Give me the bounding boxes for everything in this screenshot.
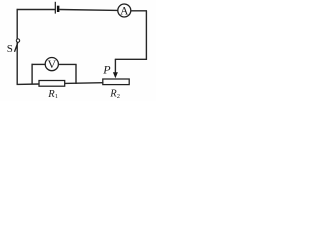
- slider arrow shaft: [114, 59, 116, 73]
- svg-text:P: P: [102, 63, 111, 77]
- wire bottom between R2 and R1: [64, 82, 103, 85]
- voltmeter loop left vertical: [31, 64, 33, 84]
- svg-text:R1: R1: [47, 89, 58, 100]
- voltmeter loop top-right horizontal: [58, 63, 76, 65]
- wire battery to ammeter: [59, 9, 117, 12]
- svg-text:V: V: [47, 57, 56, 71]
- wire slider horizontal: [115, 58, 147, 60]
- wire right vertical: [145, 11, 147, 60]
- battery short plate (negative): [57, 6, 60, 12]
- rheostat R2 body: [103, 79, 129, 85]
- battery long plate (positive): [54, 2, 56, 14]
- svg-text:R2: R2: [109, 89, 120, 100]
- resistor R1 body: [39, 81, 65, 87]
- svg-text:A: A: [120, 6, 129, 18]
- switch S pivot circle: [16, 39, 19, 42]
- ammeter A: [118, 4, 131, 18]
- wire left vertical: [16, 9, 18, 85]
- svg-text:S: S: [7, 43, 13, 55]
- switch S blade: [15, 42, 19, 52]
- voltmeter loop right vertical: [75, 64, 77, 84]
- wire top-left horizontal: [17, 9, 55, 11]
- voltmeter V: [45, 57, 58, 71]
- wire ammeter to top-right corner: [131, 10, 147, 12]
- slider arrowhead: [113, 72, 118, 78]
- voltmeter loop top-left horizontal: [32, 63, 46, 65]
- wire bottom-left: [17, 83, 40, 85]
